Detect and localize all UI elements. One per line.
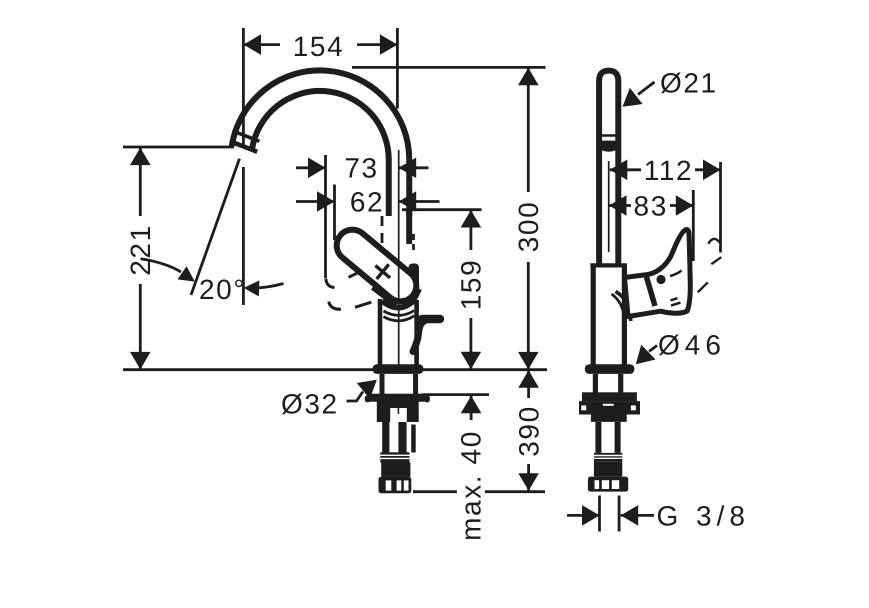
escutcheon curve outer [616, 292, 631, 322]
spout pipe right wall lower extension [406, 210, 412, 244]
20 deg left leader arc [141, 259, 182, 272]
side lever bar [422, 315, 440, 324]
dim max40 arrow [470, 396, 473, 420]
dashed handle position: corner dash A [326, 279, 335, 288]
svg-text:112: 112 [644, 155, 693, 186]
ext line: pipe axis top [396, 28, 399, 109]
ext line: 221 top [123, 146, 234, 149]
svg-text:300: 300 [513, 201, 544, 253]
dim 300 line [527, 68, 530, 370]
spout tip face [233, 142, 258, 152]
body left wall [378, 299, 383, 365]
supply pipe center [398, 422, 406, 453]
dim 221 line [139, 148, 142, 370]
block notches (white) [581, 405, 586, 410]
hose connector (side) [588, 477, 628, 492]
20 deg slanted line [191, 159, 240, 295]
deck line [123, 368, 547, 371]
mounting block [377, 401, 419, 422]
body axis line [398, 150, 400, 365]
rod right edge [411, 425, 416, 453]
side lever bend [413, 321, 425, 352]
leader diam 32 [347, 392, 364, 402]
pipe aerator band [597, 141, 621, 152]
handle chin arc [670, 271, 682, 277]
body right wall [622, 265, 627, 365]
supply end line [413, 490, 545, 493]
swivel ring 1 [384, 311, 415, 316]
ext line: 159 top [402, 208, 482, 211]
handle button dot [656, 275, 665, 284]
shank tube left wall [380, 374, 385, 395]
shank tube right wall [413, 374, 418, 395]
washer band [370, 394, 425, 402]
label 221 (rotated) [125, 220, 156, 280]
svg-text:20°: 20° [199, 274, 246, 305]
handle bell left edge [373, 288, 397, 306]
connector slots (white, side) [595, 480, 600, 489]
thread band [380, 452, 409, 462]
dim 154 line [244, 43, 398, 46]
ext line: 300 top [352, 66, 546, 69]
mounting block notch axis tick [397, 408, 399, 414]
threaded rod left [382, 418, 389, 453]
pipe axis line [608, 161, 610, 252]
svg-text:83: 83 [634, 190, 668, 221]
label max. 40 (rotated) [456, 429, 487, 543]
shank tube walls (side) [595, 374, 620, 393]
20 deg right leader [250, 284, 284, 289]
body right wall [414, 300, 419, 365]
hose nut [381, 463, 410, 477]
svg-text:62: 62 [350, 186, 384, 217]
handle side profile [625, 230, 691, 317]
handle bell right edge [412, 289, 420, 304]
pipe groove line [597, 134, 621, 136]
label 159 (rotated) [456, 255, 487, 315]
lower band (side) [591, 415, 627, 422]
dashed handle position: bottom dash [355, 302, 371, 307]
hidden pipe wall dashes (left) [381, 216, 384, 243]
base flange (side) [585, 364, 635, 374]
label 300 (rotated) [513, 197, 544, 257]
body left wall [591, 265, 596, 365]
spout aerator band [236, 132, 259, 141]
handle hatch marks [671, 298, 681, 305]
dim 159 line [469, 210, 472, 369]
svg-text:159: 159 [456, 259, 487, 311]
svg-text:G 3/8: G 3/8 [657, 501, 750, 532]
threaded rods (side) [595, 422, 601, 453]
counter underside line [422, 393, 489, 396]
dim 73 [296, 166, 326, 169]
svg-text:Ø46: Ø46 [658, 330, 726, 361]
cartridge collar [409, 264, 420, 288]
label 390 (rotated) [513, 401, 544, 461]
dashed handle position: corner dash B [329, 302, 341, 310]
dim G3/8 line [567, 514, 654, 517]
thread band stripes [380, 455, 409, 458]
mounting block (side) [579, 401, 640, 414]
ext line: spout tip vertical [242, 28, 245, 305]
connector slots (white) [386, 480, 392, 490]
handle joint bar [647, 277, 656, 306]
dim 83 [609, 204, 693, 207]
svg-text:Ø32: Ø32 [281, 389, 339, 420]
dashed handle position: minus dash [349, 271, 362, 277]
washer bump left [365, 396, 371, 403]
mounting block notch (white) [390, 408, 407, 422]
escutcheon curve inner [612, 294, 625, 318]
body shoulder [590, 263, 627, 267]
washer bump right [424, 395, 429, 402]
handle swing dash squiggle [708, 239, 720, 244]
svg-text:221: 221 [125, 224, 156, 276]
plus symbol on handle [375, 264, 390, 279]
hose connector [379, 477, 412, 493]
swivel ring 2 [384, 316, 415, 321]
hidden pipe wall dashes (right) [412, 234, 415, 250]
dim 390 line [527, 370, 530, 491]
svg-text:max. 40: max. 40 [456, 430, 487, 541]
leader diam 46 [649, 346, 657, 352]
washer band (side) [582, 392, 637, 401]
spout tube: arc centered (320,159.5) r79 [242, 81, 399, 216]
thread band (side) [594, 453, 622, 462]
handle swing dash low [698, 282, 708, 292]
dim 62 [296, 200, 335, 203]
svg-text:Ø21: Ø21 [660, 68, 718, 99]
handle swing dash mid [711, 257, 721, 264]
leader diam 21 [638, 82, 655, 95]
base flange [373, 364, 424, 374]
pipe capsule [599, 71, 618, 266]
hose nut (side) [594, 462, 622, 477]
svg-text:73: 73 [344, 153, 378, 184]
svg-text:390: 390 [513, 405, 544, 457]
dim G3/8 ext lines [600, 496, 620, 532]
handle lever (capsule) [330, 223, 422, 307]
dim 112 [610, 168, 721, 171]
handle bell bottom crescent [382, 301, 414, 308]
svg-text:154: 154 [293, 31, 345, 62]
